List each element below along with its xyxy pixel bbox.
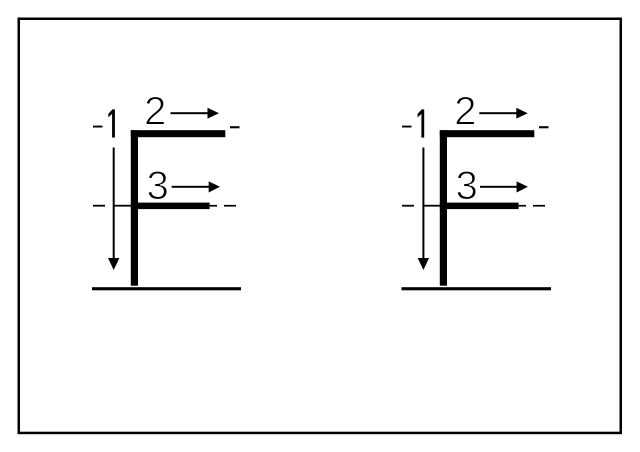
- right F: letter top bar: [440, 130, 535, 137]
- left F: stroke-3 arrowhead: [209, 181, 220, 192]
- left F: top-line right dash: [230, 126, 240, 128]
- right F: midline dash crossing shaft: [423, 205, 440, 207]
- right F: stroke-1 arrowhead: [418, 258, 429, 270]
- right F: midline dash right 2: [533, 205, 545, 207]
- left F: midline dash far left: [93, 205, 105, 207]
- right F: stroke-3 arrow shaft: [480, 186, 517, 188]
- right F: stroke number 2: [456, 97, 474, 125]
- left F: letter stem: [131, 130, 138, 286]
- right F: baseline: [402, 287, 552, 290]
- left F: stroke-1 arrow shaft: [113, 148, 115, 261]
- left F: letter top bar: [131, 130, 226, 137]
- left F: stroke-2 arrow shaft: [171, 112, 209, 114]
- right F: stroke number 1 (flag): [418, 109, 422, 117]
- right F: midline dash far left: [402, 205, 414, 207]
- right F: stroke-2 arrowhead: [516, 108, 527, 119]
- right F: stroke number 1 (stem): [421, 109, 424, 137]
- right F: letter stem: [440, 130, 447, 286]
- left F: top-line left dash: [93, 126, 103, 128]
- left F: stroke-3 arrow shaft: [172, 186, 210, 188]
- right F: top-line right dash: [539, 126, 549, 128]
- right F: stroke-2 arrow shaft: [479, 112, 517, 114]
- right F: stroke-1 arrow shaft: [422, 148, 424, 261]
- left F: stroke number 1 (flag): [108, 109, 112, 117]
- left F: stroke-1 arrowhead: [108, 258, 119, 270]
- right F: stroke-3 arrowhead: [517, 181, 528, 192]
- left F: baseline: [92, 287, 241, 290]
- right F: midline dash right 1: [519, 205, 526, 207]
- right F: letter middle bar: [440, 203, 519, 210]
- right F: stroke number 3: [457, 171, 476, 199]
- left F: stroke number 3: [148, 171, 167, 199]
- left F: letter middle bar: [131, 203, 210, 210]
- left F: stroke-2 arrowhead: [208, 108, 220, 119]
- left F: midline dash right 2: [224, 205, 236, 207]
- right F: top-line left dash: [402, 126, 412, 128]
- left F: midline dash crossing shaft: [114, 205, 131, 207]
- left F: stroke number 2: [146, 97, 164, 125]
- left F: stroke number 1 (stem): [112, 109, 115, 137]
- left F: midline dash right 1: [210, 205, 217, 207]
